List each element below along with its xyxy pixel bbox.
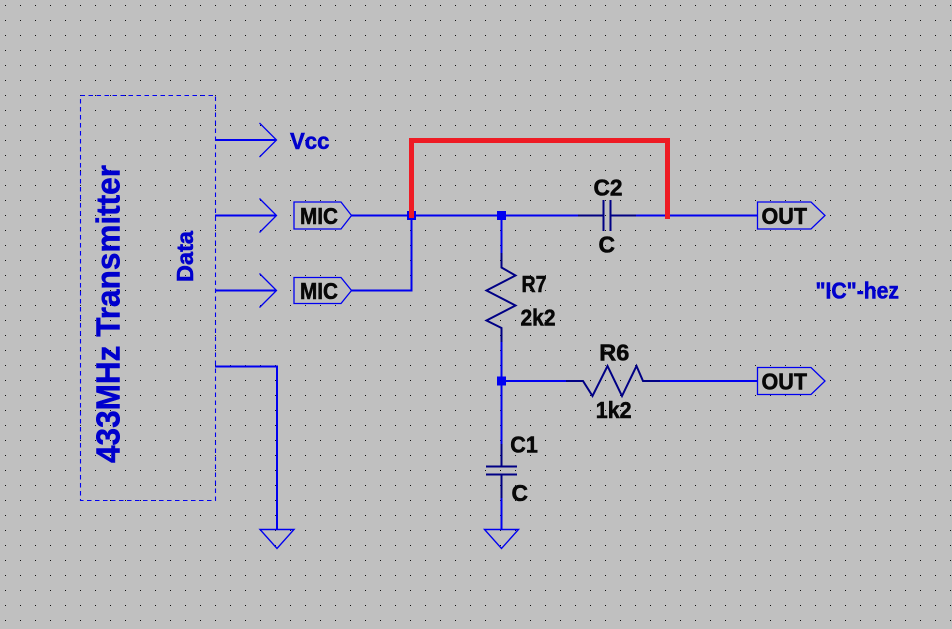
svg-text:C1: C1 — [510, 431, 538, 457]
wire R6 to OUT2 — [660, 380, 758, 382]
svg-text:MIC: MIC — [300, 203, 338, 229]
resistor R6 — [566, 366, 660, 396]
svg-text:MIC: MIC — [300, 278, 338, 304]
wire R7 bottom — [501, 342, 503, 381]
wire R7 top — [501, 216, 503, 254]
resistor R7 — [487, 253, 516, 342]
wire Vcc stub — [215, 139, 277, 141]
svg-text:Data: Data — [172, 231, 198, 282]
node MIC1 arrow — [260, 199, 277, 233]
wire MIC2 up to node A — [352, 216, 412, 291]
ground GND2 — [485, 530, 519, 549]
node Vcc arrow — [260, 123, 277, 157]
module sheet-symbol 433MHz Transmitter — [81, 96, 216, 501]
junction node A — [407, 211, 416, 220]
wire node B to R6 — [502, 380, 567, 382]
svg-text:R6: R6 — [599, 339, 629, 365]
svg-text:433MHz Transmitter: 433MHz Transmitter — [90, 165, 127, 463]
svg-text:Vcc: Vcc — [290, 128, 330, 154]
wire red net (thick) — [412, 141, 668, 220]
wire Data to ground — [215, 367, 277, 530]
svg-text:OUT: OUT — [762, 369, 808, 395]
svg-text:C: C — [512, 480, 529, 506]
svg-text:C2: C2 — [594, 175, 623, 201]
wire MIC2 stub — [215, 290, 277, 292]
wire node B down to C1 — [501, 381, 503, 444]
svg-text:"IC"-hez: "IC"-hez — [816, 277, 900, 303]
port MIC (lower) — [294, 278, 352, 305]
wire MIC1 stub — [215, 215, 277, 217]
junction node A2 — [497, 211, 506, 220]
junction node B — [497, 377, 506, 386]
node MIC2 arrow — [260, 274, 277, 308]
svg-text:C: C — [599, 231, 616, 257]
capacitor C1 — [486, 444, 517, 498]
wire C2 to OUT1 — [612, 215, 758, 217]
port OUT (lower) — [758, 368, 826, 395]
wire C1 to ground — [501, 498, 503, 530]
wire main net MIC1 to C2 — [352, 215, 603, 217]
capacitor C2 — [578, 200, 636, 231]
svg-text:OUT: OUT — [762, 203, 808, 229]
ground GND1 — [260, 530, 294, 549]
svg-text:1k2: 1k2 — [596, 397, 632, 423]
port OUT (upper) — [758, 202, 826, 229]
svg-text:R7: R7 — [522, 271, 547, 297]
svg-text:2k2: 2k2 — [521, 304, 556, 330]
port MIC (upper) — [294, 202, 352, 229]
